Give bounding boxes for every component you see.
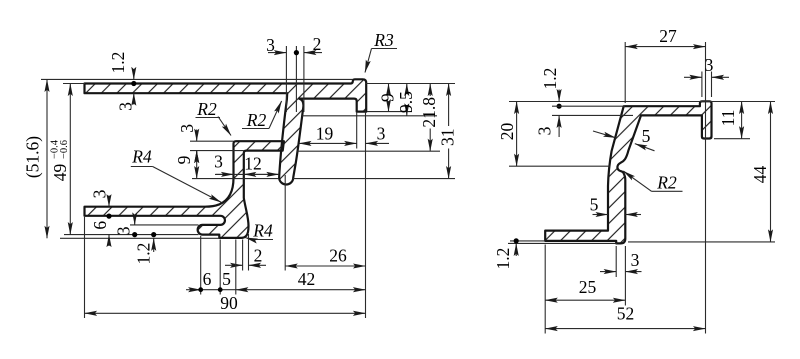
dim 3 (plate thickness) [558,115,560,137]
svg-text:3: 3 [377,124,386,144]
svg-text:90: 90 [220,293,238,313]
dim 25 [545,299,625,301]
label R3 leader [372,48,398,50]
dim 3 (strip thickness) [196,130,198,142]
dim 1.2 (rib above plate) [558,90,560,102]
wire ext x545.2 (flange left down) [544,245,546,334]
svg-text:31: 31 [438,129,458,147]
wire top ext line y101.5 (rib top level) [509,101,775,103]
svg-text:21.8: 21.8 [419,97,439,128]
svg-text:3: 3 [705,55,714,75]
profile lower: step strip + web + bottom flange + groove hook [85,141,284,238]
svg-text:3: 3 [90,189,110,198]
svg-text:3: 3 [177,124,197,133]
svg-text:3: 3 [631,250,640,270]
dim 3 (groove wall) [134,215,136,225]
dim 6 (flange bottom to profile bottom) [108,235,110,246]
svg-text:49: 49 [50,164,70,182]
dim 42 [236,289,366,291]
wire plate bottom ext y115.4 [552,114,633,116]
svg-text:R4: R4 [131,147,152,167]
svg-text:11: 11 [718,110,738,127]
svg-text:5: 5 [642,126,651,146]
svg-text:3: 3 [116,102,136,111]
dim 1.2 (top left, flange bead height) [133,71,135,80]
label R2 (flange-finger corner) [242,128,269,130]
wire ext y241.9 (bottom, right) [628,241,775,243]
dim 9 (strip to finger tip level) [196,151,198,179]
dim 3 (finger root thickness, top) [268,52,286,54]
dim 20 [516,102,518,167]
dim 49 -0.4 -0.6 vertical [69,84,71,235]
wire ext y166.2 (slant end) [509,165,610,167]
svg-text:25: 25 [579,277,597,297]
wire ext x285.2 (finger tip) [284,175,286,271]
dim 6 / 5 chain at y289.7 [186,289,201,291]
wire ext x701.9 x711.5 (rib sides up) [701,72,703,98]
svg-text:1.2: 1.2 [134,243,154,265]
svg-text:27: 27 [659,26,677,46]
svg-text:9: 9 [378,93,398,102]
label R2 (barb notch) [652,190,683,192]
wire ext x84.5 (left edge down) [84,217,86,318]
dim 44 [770,102,772,242]
RIGHT FIGURE PROFILE [545,101,711,243]
wire top ext line (R3 bead top level) [41,78,353,80]
svg-text:6: 6 [90,221,110,230]
svg-text:R2: R2 [656,173,677,193]
dim 11 (rib height) [741,102,743,139]
svg-text:2: 2 [254,246,263,266]
svg-text:R2: R2 [246,110,267,130]
dim 9 (wall depth) [388,84,390,92]
profile upper: top flange + R3 bead + right channel wall + glass finger [85,79,367,184]
dim 27 [625,46,705,48]
svg-text:5: 5 [590,195,599,215]
svg-text:19: 19 [316,124,334,144]
svg-text:(51.6): (51.6) [23,136,43,178]
wire flange-top ext stub left [63,83,85,85]
dim 3 (top flange thickness) [133,93,135,104]
dim 52 [545,328,705,330]
wire strip-top ext y141.2 [190,140,234,142]
wire plate top ext y106.2 left stub [552,105,625,107]
wire ext y151.2 (strip bottom right) [297,150,440,152]
svg-text:R4: R4 [252,221,273,241]
wire 31/9 ref line y180.1 [192,178,279,180]
wire ext x242.6 / x248.5 (lip edges) [242,240,244,271]
dim 3 (lip width) [600,271,616,273]
svg-text:9.5: 9.5 [396,91,416,113]
svg-text:42: 42 [298,269,316,289]
svg-text:3: 3 [266,35,275,55]
label R2 (web top corner) [196,117,221,119]
wire ext x625.2 (plate left top) [624,42,626,103]
wire ext y138.7 (rib bottom) [714,138,750,140]
dim 1.2 (bottom lip) [515,243,517,256]
wire ext y240.9 left stub [510,240,545,242]
dim 1.2 (bottom lip) [153,238,155,252]
svg-text:1.2: 1.2 [540,68,560,90]
dim 9.5 [406,84,408,93]
wire ext y115.8 [302,115,437,117]
dim 31 [448,84,450,127]
svg-text:5: 5 [222,269,231,289]
wire ext y111.6 (wall bottom) [367,111,412,113]
svg-text:−0.6: −0.6 [59,140,70,159]
svg-text:2: 2 [313,34,322,54]
svg-text:1.2: 1.2 [108,52,128,74]
dim 90 [85,312,366,314]
svg-text:3: 3 [535,126,555,135]
dim 21.8 [429,84,431,97]
wire wall outer ext x365.5 (down to 90 dim) [365,112,367,318]
wire ext y224.9 (groove wall top) [130,224,199,226]
svg-text:20: 20 [497,123,517,141]
dim (51.6) vertical [46,79,48,238]
svg-text:12: 12 [244,154,262,174]
svg-text:44: 44 [750,166,770,184]
wire ext x616.2 x625.4 (lip sides) [615,246,617,277]
dim 3 (wall thickness) [366,142,390,144]
wire bottom ext line y234.6 [64,234,199,236]
wire ext x705.5 (long, 27 and 52) [705,42,707,334]
label R4 (outer lip corner) [252,239,273,241]
dim 2 (finger offset, top) [304,52,322,54]
svg-text:52: 52 [617,304,635,324]
svg-text:26: 26 [329,246,347,266]
wire ext x200.7 x220.2 x235.8 [200,236,202,295]
dim 3 (rib thickness) [684,76,702,78]
wire bottom ext line y238.3 [60,237,219,239]
wire wall inner ext x356.7 [356,112,358,149]
dim 2 (lip) [225,264,243,266]
svg-text:3: 3 [114,226,134,235]
dim 3 (web thickness) + dim 12 (web to finger) chain at y174.4 [215,173,279,175]
svg-text:6: 6 [203,269,212,289]
dim 5 (leg thickness) [593,214,609,216]
wire ext y243.4 (lip bottom to left) [508,242,617,244]
node ext lines for top 3 and 2 dims [285,46,287,112]
wire strip-bottom ext y150.6 [190,150,244,152]
label R4 (web-flange fillet) [131,166,153,168]
dim 26 [285,265,365,267]
svg-text:3: 3 [214,152,223,172]
dim 19 (finger to wall) [299,142,357,144]
dim 5 (slant thickness callout) [593,131,616,138]
dim 3 (bottom flange thickness) [108,196,110,207]
svg-text:R2: R2 [196,99,217,119]
svg-text:1.2: 1.2 [493,248,513,270]
svg-text:9: 9 [174,155,194,164]
wire top ext right y83.5 [365,83,455,85]
svg-text:R3: R3 [373,30,394,50]
